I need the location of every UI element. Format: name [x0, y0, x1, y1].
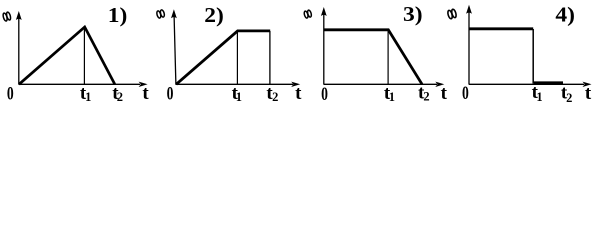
graph 4 vertical axis arrowhead — [466, 5, 472, 14]
svg-text:1: 1 — [236, 90, 242, 104]
graph 2 horizontal axis — [176, 83, 293, 85]
svg-text:t: t — [441, 83, 448, 104]
graph 1 horizontal axis arrowhead — [139, 82, 148, 87]
graph 3 vertical axis arrowhead — [321, 7, 327, 16]
graph 4 omega axis label — [447, 9, 457, 19]
graph 3 horizontal axis — [324, 83, 437, 85]
svg-text:1: 1 — [85, 90, 91, 104]
graph 2 horizontal axis arrowhead — [291, 82, 300, 87]
graph 2 drop line at t1 — [236, 31, 238, 84]
graph 3 curve: constant to t1 then fall to t2 — [324, 30, 422, 84]
graph 4 curve: zero level segment from t1 to t2 — [534, 81, 563, 84]
svg-text:2: 2 — [566, 91, 572, 105]
svg-text:t: t — [295, 83, 302, 104]
graph 3 drop line at t1 — [387, 30, 389, 84]
graph 3 horizontal axis arrowhead — [435, 82, 444, 87]
graph 1 horizontal axis — [19, 83, 140, 85]
svg-text:1: 1 — [389, 90, 395, 104]
graph 3 omega axis label — [304, 10, 313, 19]
graph 3 vertical axis — [323, 14, 325, 85]
svg-text:0: 0 — [7, 82, 14, 104]
svg-text:2): 2) — [204, 3, 224, 27]
graph 2 drop line at t2 — [269, 31, 271, 84]
svg-text:1: 1 — [536, 90, 542, 104]
graph 2 vertical axis arrowhead — [171, 9, 177, 18]
graph 1 curve: rise to peak at t1 then fall to t2 — [19, 27, 115, 84]
graph 4 horizontal axis — [469, 83, 584, 85]
svg-text:2: 2 — [117, 90, 123, 104]
graph 2 curve: rise to t1 then constant to t2 — [176, 31, 270, 84]
svg-text:0: 0 — [167, 82, 174, 104]
graph 4 horizontal axis arrowhead — [583, 82, 592, 87]
svg-text:3): 3) — [403, 2, 423, 26]
svg-text:1): 1) — [108, 3, 128, 27]
graph 2 omega axis label — [156, 9, 165, 18]
graph 4 drop line at t1 — [532, 29, 534, 84]
graph 4 vertical axis — [468, 12, 470, 85]
svg-text:0: 0 — [462, 82, 469, 104]
svg-text:t: t — [142, 83, 149, 104]
graph 1 drop line at t1 — [83, 28, 85, 84]
svg-text:2: 2 — [423, 90, 429, 104]
svg-text:t: t — [585, 83, 592, 104]
svg-text:0: 0 — [321, 83, 328, 105]
graph 1 omega axis label — [2, 12, 11, 22]
graph 2 vertical axis — [174, 16, 176, 85]
svg-text:2: 2 — [272, 90, 278, 104]
svg-text:4): 4) — [555, 3, 575, 27]
graph 1 vertical axis — [18, 18, 20, 85]
graph 1 vertical axis arrowhead — [16, 11, 22, 20]
graph 4 curve: constant high level until t1 — [469, 27, 533, 30]
